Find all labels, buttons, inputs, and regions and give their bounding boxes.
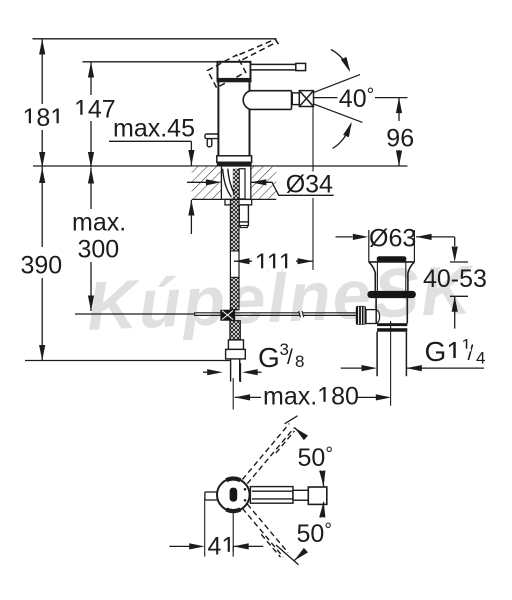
- dimension 181: [41, 39, 43, 168]
- svg-text:Ø34: Ø34: [286, 170, 333, 198]
- top view left stub: [205, 492, 217, 500]
- spout: [243, 91, 291, 110]
- 147 reference line: [83, 61, 218, 63]
- svg-text:max.45: max.45: [113, 115, 195, 143]
- top reference line: [33, 38, 277, 40]
- spray fan lines: [314, 75, 363, 123]
- waste skirt: [369, 262, 415, 291]
- dimension 41: [204, 498, 206, 557]
- hook on body left: [205, 134, 218, 147]
- dashed lever down 50: [242, 504, 288, 557]
- G3/8 nut: [226, 340, 246, 359]
- braided hose in hole: [233, 169, 239, 200]
- svg-text:Ø63: Ø63: [369, 224, 416, 252]
- dimension Ø34: [187, 181, 213, 183]
- lever handle: [251, 64, 297, 70]
- faucet base: [217, 156, 252, 163]
- waste collar: [377, 323, 407, 326]
- top view circle: [217, 479, 250, 512]
- threaded stud in hole: [239, 169, 245, 199]
- pull rod knob: [356, 306, 366, 325]
- svg-text:/: /: [287, 346, 293, 369]
- dashed lever up 50: [242, 424, 294, 484]
- svg-text:4: 4: [476, 348, 485, 367]
- serif patches for digit 1: [23, 115, 471, 555]
- faucet body: [218, 81, 249, 156]
- svg-text:41: 41: [208, 533, 236, 561]
- dimension Ø63: [336, 236, 353, 238]
- drain pull rod: [194, 313, 356, 316]
- dimension max.180: [232, 378, 234, 410]
- dimension 40-53: [450, 261, 468, 263]
- tailpipe: [377, 332, 406, 377]
- svg-text:390: 390: [21, 252, 63, 280]
- 50deg arc upper: [294, 428, 305, 439]
- lever grip: [296, 63, 306, 70]
- dimension 390: [41, 168, 43, 361]
- svg-text:181: 181: [23, 104, 65, 132]
- deck top line: [33, 165, 408, 167]
- dimension G1 1/4: [341, 367, 362, 369]
- 390 bottom reference line: [25, 360, 230, 362]
- hose below connector: [230, 321, 240, 340]
- horseshoe washer: [225, 199, 252, 205]
- svg-text:G1: G1: [425, 336, 462, 367]
- curved supply hose in hole: [223, 169, 234, 197]
- waste cap: [377, 256, 407, 262]
- svg-text:max.180: max.180: [263, 383, 359, 411]
- dimension max.300: [90, 168, 92, 311]
- svg-text:300: 300: [78, 236, 120, 264]
- top view cartridge pill: [230, 488, 238, 502]
- spray angle arcs: [331, 50, 349, 70]
- svg-text:96: 96: [386, 125, 414, 153]
- waste centerline: [390, 321, 392, 406]
- waste body: [376, 298, 407, 323]
- dashed head (raised position): [208, 55, 246, 88]
- svg-text:40-53: 40-53: [423, 265, 487, 293]
- svg-text:147: 147: [74, 96, 116, 124]
- svg-text:G: G: [258, 342, 280, 373]
- braided flex hose: [230, 199, 239, 309]
- aerator connector: [292, 93, 299, 105]
- svg-text:8: 8: [295, 352, 304, 371]
- knob stem: [366, 310, 376, 324]
- aerator: [299, 91, 313, 107]
- dashed lever (raised position): [240, 39, 279, 60]
- svg-text:max.: max.: [72, 209, 126, 237]
- svg-text:/: /: [468, 342, 474, 365]
- faucet head: [218, 62, 251, 82]
- mounting nut: [239, 205, 248, 228]
- dimension 147: [90, 62, 92, 168]
- svg-text:111: 111: [255, 249, 293, 277]
- 50deg arc lower: [320, 502, 324, 518]
- rod connector: [220, 310, 235, 321]
- max300 rod reference line: [75, 313, 195, 315]
- top view lever: [250, 487, 326, 505]
- supply pipe end: [231, 359, 240, 382]
- dimension 111: [312, 107, 314, 172]
- dimension G3/8 arrows: [203, 371, 214, 373]
- deck hatched section: [192, 167, 222, 200]
- Ø63 extension lines: [368, 230, 370, 262]
- rod break ticks: [299, 311, 304, 317]
- waste O-ring: [367, 291, 416, 298]
- dimension 96: [375, 97, 408, 99]
